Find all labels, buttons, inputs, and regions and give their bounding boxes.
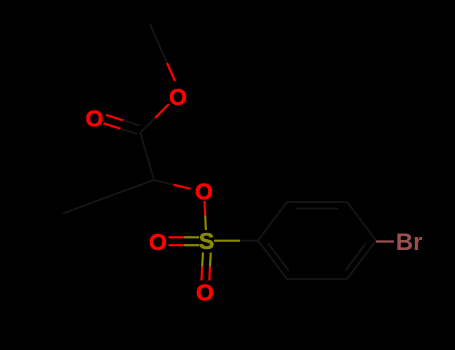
- bond O1-C1, carbon half: [141, 118, 155, 132]
- svg-text:O: O: [196, 280, 214, 306]
- double bond S=O5, right line oxygen half: [208, 267, 211, 281]
- double bond S=O5, left line oxygen half: [200, 267, 203, 281]
- bond O1-C1, oxygen half: [155, 104, 169, 118]
- bond S-ring, sulfur half: [214, 240, 240, 242]
- double bond O4=S, lower line oxygen half: [169, 244, 185, 246]
- benzene ring edge BR-BL: [287, 278, 347, 280]
- bond C1-C2 (carbonyl C to alpha C): [140, 132, 154, 180]
- bond C3-C4 (side chain terminal): [63, 197, 107, 214]
- svg-text:S: S: [199, 228, 214, 254]
- bond CH3-O1, oxygen half: [167, 63, 175, 81]
- bond CH3-O1 (methyl ester), carbon half: [150, 24, 167, 63]
- svg-text:O: O: [149, 229, 167, 255]
- double bond O4=S, lower line sulfur half: [184, 244, 199, 246]
- double bond C1=O2, lower line carbon half: [121, 129, 138, 134]
- double bond C1=O2, upper line oxygen half: [106, 115, 123, 120]
- benzene ring inner line top: [295, 208, 338, 210]
- double bond O4=S, upper line sulfur half: [184, 236, 199, 238]
- double bond S=O5, left line sulfur half: [201, 253, 204, 267]
- benzene ring edge TL-TR (double): [287, 201, 347, 203]
- svg-text:Br: Br: [396, 229, 423, 256]
- double bond C1=O2, lower line oxygen half: [104, 123, 121, 128]
- bond C2-O3, oxygen half: [174, 185, 191, 189]
- double bond C1=O2, upper line carbon half: [123, 120, 140, 125]
- bond C2-C3 (side chain): [107, 180, 154, 197]
- benzene ring edge R-BR (double): [347, 241, 376, 280]
- benzene ring edge L-TL: [258, 202, 287, 241]
- double bond S=O5, right line sulfur half: [209, 253, 212, 267]
- svg-text:O: O: [195, 179, 213, 205]
- bond O3-S, sulfur half: [204, 216, 207, 231]
- benzene ring inner line lower-left: [268, 243, 289, 271]
- benzene ring inner line lower-right: [345, 243, 366, 271]
- svg-text:O: O: [86, 105, 104, 131]
- svg-text:O: O: [169, 84, 187, 110]
- double bond O4=S, upper line oxygen half: [169, 236, 185, 238]
- bond ring-Br: [376, 240, 394, 242]
- benzene ring edge BL-L (double): [258, 241, 287, 280]
- bond O3-S, oxygen half: [203, 201, 206, 216]
- benzene ring edge TR-R: [347, 202, 376, 241]
- bond C2-O3, carbon half: [154, 180, 174, 185]
- bond S-ring, carbon half: [240, 240, 258, 242]
